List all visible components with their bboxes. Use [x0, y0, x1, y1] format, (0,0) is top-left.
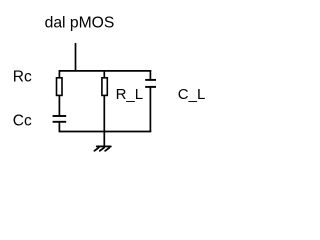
wire C_L to bottom rail — [149, 87, 151, 132]
svg-text:Cc: Cc — [13, 112, 32, 129]
wire Cc to bottom rail — [58, 122, 60, 132]
resistor Rc — [57, 78, 63, 96]
wire Rc to Cc — [58, 95, 60, 116]
ground — [94, 146, 110, 150]
capacitor Cc — [53, 116, 67, 122]
wire left branch drop — [58, 70, 60, 78]
svg-text:R_L: R_L — [116, 86, 144, 103]
resistor R_L — [102, 78, 107, 96]
capacitor C_L — [145, 80, 156, 87]
svg-text:dal pMOS: dal pMOS — [45, 15, 115, 32]
wire bus to R_L — [103, 70, 105, 78]
wire bus corner to C_L — [149, 70, 151, 80]
svg-text:C_L: C_L — [178, 86, 206, 103]
wire top bus — [59, 70, 152, 72]
svg-text:Rc: Rc — [13, 68, 32, 85]
wire from pMOS (feed vertical) — [75, 43, 77, 71]
wire R_L to ground — [103, 95, 105, 146]
wire bottom rail — [59, 131, 152, 133]
